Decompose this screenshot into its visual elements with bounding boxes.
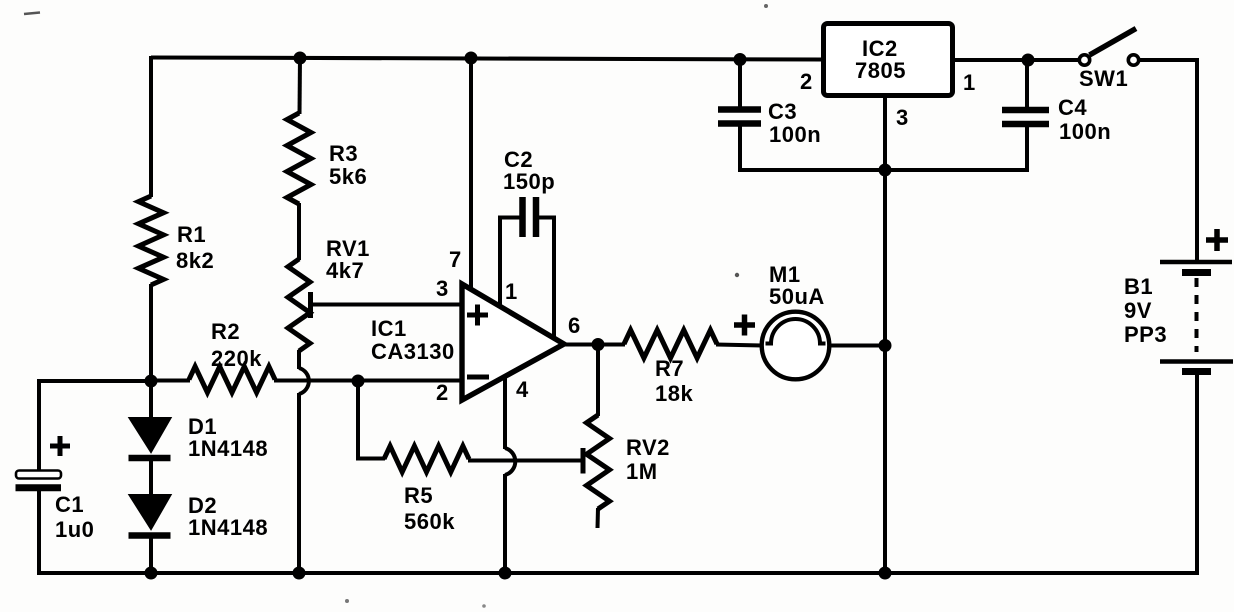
label SW1	[1079, 66, 1128, 91]
wire C2 to output side down	[538, 216, 556, 339]
wire top rail left segment (V+ from R1 top to IC2 pin 2)	[151, 58, 823, 60]
wire RV2 bottom stub	[596, 508, 601, 528]
op-amp minus input marking	[467, 375, 489, 380]
wire pin3 line down to meter node	[883, 170, 887, 345]
junction dot RV1 line at bottom rail	[293, 567, 306, 580]
svg-text:R7: R7	[655, 356, 684, 381]
label C2	[503, 147, 555, 194]
pin label 4	[516, 377, 529, 402]
junction dot top rail at pin 7	[465, 52, 478, 65]
pin label 2 (IC2 input)	[800, 69, 813, 94]
label C3	[768, 99, 821, 147]
svg-text:50uA: 50uA	[769, 284, 825, 309]
svg-text:RV2: RV2	[626, 435, 670, 460]
capacitor C1 (electrolytic)	[16, 471, 62, 488]
label D1	[188, 414, 268, 461]
pin label 1	[505, 279, 518, 304]
label RV1	[326, 236, 370, 283]
pin label 7	[449, 247, 462, 272]
resistor R7	[624, 330, 717, 358]
resistor R5	[384, 446, 469, 472]
wire C4 down to ground wire	[1025, 124, 1029, 172]
pin label 1 (IC2 output)	[963, 70, 976, 95]
wire top rail down to R1	[149, 56, 153, 197]
junction dot pin3 line at bottom rail	[879, 567, 892, 580]
wire pin 7 from top rail to op-amp	[469, 57, 473, 292]
svg-text:1: 1	[963, 70, 976, 95]
wire RV1 wiper to op-amp pin 3	[310, 303, 463, 307]
label D2	[188, 493, 268, 540]
wire R1 to node A	[149, 284, 153, 382]
wire IC2 pin 3 down	[883, 95, 887, 171]
resistor R1	[139, 196, 164, 285]
label RV2	[626, 435, 670, 484]
label C4	[1058, 95, 1111, 144]
wire top rail down to C4	[1025, 60, 1029, 110]
capacitor C3	[718, 110, 761, 124]
svg-text:9V: 9V	[1124, 298, 1152, 323]
node A junction (R1/R2/C1/D1)	[145, 375, 158, 388]
wire R5 to RV2 wiper	[468, 459, 581, 463]
wire top rail down to C3	[738, 59, 742, 109]
label R5	[404, 483, 455, 534]
svg-text:C1: C1	[55, 492, 84, 517]
switch SW1	[1079, 29, 1138, 66]
svg-text:18k: 18k	[655, 381, 693, 406]
wire node A to D1 anode	[149, 381, 153, 419]
svg-text:R1: R1	[177, 222, 206, 247]
op-amp U1 triangle	[462, 284, 564, 400]
svg-text:C3: C3	[768, 99, 797, 124]
svg-text:4: 4	[516, 377, 529, 402]
label R7	[655, 356, 693, 406]
node D junction (meter/IC2 pin3 line)	[879, 339, 892, 352]
svg-text:C4: C4	[1058, 95, 1087, 120]
label R1	[176, 222, 214, 273]
resistor R3	[287, 113, 311, 204]
RV2 wiper tap bar	[581, 448, 586, 474]
svg-text:PP3: PP3	[1124, 322, 1167, 347]
svg-text:8k2: 8k2	[176, 248, 214, 273]
pin label 3 (IC2 ground)	[896, 105, 909, 130]
svg-text:R5: R5	[404, 483, 433, 508]
label C1	[55, 492, 94, 542]
pin label 6	[568, 313, 581, 338]
svg-text:R2: R2	[211, 319, 240, 344]
svg-text:2: 2	[800, 69, 813, 94]
battery B1 cell plates	[1160, 262, 1233, 372]
wire R3 to RV1	[297, 203, 301, 260]
wire C3 down to ground wire	[738, 123, 742, 172]
svg-text:150p: 150p	[503, 169, 555, 194]
svg-text:1u0: 1u0	[55, 517, 94, 542]
diode D1	[129, 418, 171, 458]
svg-text:220k: 220k	[211, 346, 262, 371]
svg-text:560k: 560k	[404, 509, 455, 534]
potentiometer RV2	[587, 415, 610, 509]
wire bottom rail (0V)	[37, 571, 1197, 575]
svg-text:1N4148: 1N4148	[188, 436, 268, 461]
wire R2 to node B (crosses under hop)	[274, 379, 359, 383]
svg-text:SW1: SW1	[1079, 66, 1128, 91]
svg-text:100n: 100n	[1059, 119, 1111, 144]
junction dot top rail at C3	[734, 53, 747, 66]
wire top rail right segment (IC2 pin 1 to SW1)	[953, 58, 1079, 62]
svg-text:3: 3	[436, 276, 449, 301]
wire node A to C1 positive	[37, 379, 151, 472]
svg-text:R3: R3	[329, 141, 358, 166]
node C junction (output/RV2)	[592, 338, 605, 351]
junction dot pin 4 line at bottom rail	[499, 567, 512, 580]
svg-text:6: 6	[568, 313, 581, 338]
op-amp plus input marking	[467, 305, 488, 326]
pin label 3	[436, 276, 449, 301]
svg-text:2: 2	[436, 380, 449, 405]
wire node B down to R5	[356, 380, 385, 461]
wire node A to R2	[150, 379, 190, 383]
svg-text:1M: 1M	[626, 459, 658, 484]
wire hop to bottom rail	[297, 393, 301, 573]
junction dot pin3 at ground wire	[879, 164, 892, 177]
node B junction (R2/R5/pin2)	[352, 375, 365, 388]
C1 polarity plus	[50, 436, 70, 456]
svg-text:7805: 7805	[855, 58, 906, 83]
wire node C down to RV2	[596, 343, 600, 416]
svg-text:B1: B1	[1124, 274, 1153, 299]
label R3	[329, 141, 367, 189]
label B1	[1124, 274, 1167, 347]
battery B1 polarity plus	[1206, 229, 1228, 251]
wire hop to bottom rail pin4	[503, 474, 507, 573]
svg-text:7: 7	[449, 247, 462, 272]
wire R7 to meter	[716, 345, 762, 346]
wire crossover hop over R5 wire	[505, 448, 515, 475]
wire meter to pin3 vertical line	[828, 344, 887, 348]
wire ground segment C3 to C4	[738, 168, 1028, 172]
svg-text:100n: 100n	[769, 122, 821, 147]
wire top rail to R3	[298, 57, 303, 114]
svg-text:1N4148: 1N4148	[188, 515, 268, 540]
wire node B to op-amp pin 2	[358, 379, 463, 383]
meter M1 polarity plus	[734, 315, 755, 336]
wire D2 cathode to bottom rail	[149, 535, 153, 573]
junction dot top rail at R3	[294, 52, 307, 65]
wire crossover hop over R2 wire	[299, 368, 309, 394]
meter M1	[762, 312, 830, 380]
resistor R2	[189, 367, 275, 393]
wire pin 4 down to crossover hop	[503, 375, 507, 449]
label IC1	[371, 316, 455, 364]
svg-text:1: 1	[505, 279, 518, 304]
wire RV1 bottom to crossover hop	[297, 350, 301, 369]
pin label 2	[436, 380, 449, 405]
label IC2	[855, 36, 906, 83]
wire C1 negative to bottom rail	[37, 487, 41, 575]
svg-text:IC1: IC1	[371, 316, 407, 341]
label R2	[211, 319, 262, 371]
label M1	[769, 262, 825, 309]
junction dot top rail at C4	[1022, 54, 1035, 67]
svg-text:3: 3	[896, 105, 909, 130]
capacitor C4	[1002, 110, 1049, 124]
wire D1 cathode to D2 anode	[149, 458, 153, 496]
wire pin 1 up to C2	[498, 216, 520, 307]
RV1 wiper tap	[308, 292, 313, 318]
svg-text:4k7: 4k7	[326, 258, 364, 283]
wire SW1 to battery positive, down right side	[1140, 58, 1198, 261]
svg-text:CA3130: CA3130	[371, 339, 455, 364]
regulator IC2 box	[824, 24, 953, 96]
potentiometer RV1	[288, 259, 310, 351]
capacitor C2	[523, 197, 537, 237]
wire pin3 line meter node to bottom rail	[883, 345, 887, 573]
diode D2	[129, 495, 171, 536]
wire battery negative down to bottom rail	[1195, 370, 1199, 575]
junction dot left line at bottom rail	[145, 567, 158, 580]
wire op-amp output pin 6	[562, 343, 625, 347]
svg-text:5k6: 5k6	[329, 164, 367, 189]
